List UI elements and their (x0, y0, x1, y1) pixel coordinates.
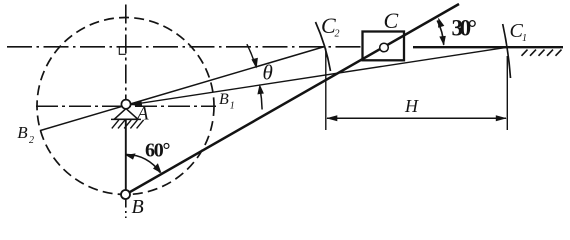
svg-text:B: B (17, 123, 28, 142)
svg-text:1: 1 (522, 33, 527, 44)
dash-dot axis through A (horizontal) (36, 105, 216, 107)
slider block C (rectangle) (363, 32, 405, 61)
arc C2 (construction arc, centered at A) (316, 22, 331, 71)
arc C1 (construction arc, centered at A) (503, 24, 511, 78)
H left arrowhead (326, 115, 337, 121)
svg-text:2: 2 (29, 135, 34, 146)
60 degree arc at B (126, 154, 160, 172)
60 deg right arrowhead (153, 163, 162, 173)
30 deg top arrowhead (438, 18, 444, 28)
theta angle lower arrow (arc centered A) (260, 88, 262, 110)
svg-text:60°: 60° (145, 140, 171, 162)
pin C (small circle in slider) (380, 43, 389, 52)
rod B-C (thick, at 30 deg) (126, 4, 460, 195)
vertical centerline below B (dash-dot) (125, 200, 127, 219)
arrowhead at pivot A on line AC1 (131, 100, 142, 106)
line A-B1-C1 (rod position 1) (126, 47, 507, 105)
theta angle upper arrow (arc centered A) (247, 44, 256, 65)
vertical centerline above A (dash-dot) (125, 5, 127, 102)
thick guide line right of slider (413, 46, 563, 48)
pivot support triangle at A (114, 109, 138, 120)
H dimension extension line left (at C2) (325, 49, 327, 131)
support base line (111, 118, 141, 120)
crank pin B (circle) (121, 190, 130, 199)
horizontal centerline (slider guide axis, dash-dot) (7, 46, 402, 48)
svg-text:B: B (132, 196, 144, 218)
H dimension line (327, 117, 506, 119)
60 deg left arrowhead (125, 153, 135, 159)
svg-text:θ: θ (263, 61, 273, 85)
30 degree arc between rod and guide (437, 21, 444, 45)
svg-text:H: H (404, 96, 419, 116)
right-angle marker at centerline intersection (119, 47, 126, 54)
svg-text:B: B (219, 91, 229, 108)
svg-text:A: A (135, 104, 149, 125)
H dimension extension line right (at C1) (506, 56, 508, 130)
line B2-A-C2 (rod position 2, through pivot A) (40, 46, 325, 130)
support ground hatching (112, 120, 144, 128)
pivot pin A (circle) (121, 100, 130, 109)
H right arrowhead (496, 115, 507, 121)
svg-text:2: 2 (335, 29, 340, 40)
dashed crank circle (path of B about A) (37, 18, 214, 195)
svg-text:1: 1 (230, 101, 235, 112)
ground hatching right of C1 (522, 50, 562, 56)
svg-text:30°: 30° (452, 16, 478, 41)
svg-text:C: C (384, 8, 399, 33)
crank A-B (solid vertical link) (125, 101, 127, 195)
30 deg bottom arrowhead (439, 36, 446, 46)
